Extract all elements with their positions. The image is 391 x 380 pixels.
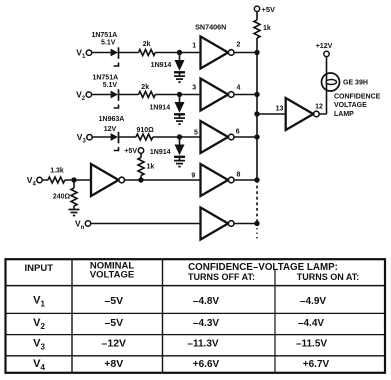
svg-text:SN7406N: SN7406N [195, 23, 226, 32]
svg-text:V1: V1 [76, 48, 86, 60]
svg-text:GE 39H: GE 39H [343, 80, 368, 87]
svg-text:V3: V3 [33, 338, 45, 352]
svg-text:–12V: –12V [102, 338, 127, 350]
svg-text:Vn: Vn [75, 219, 85, 231]
svg-text:VOLTAGE: VOLTAGE [334, 102, 367, 109]
svg-text:240Ω: 240Ω [53, 193, 71, 200]
svg-text:+5V: +5V [124, 148, 137, 155]
svg-text:–5V: –5V [104, 317, 123, 329]
svg-text:–11.3V: –11.3V [187, 339, 218, 350]
svg-text:1k: 1k [263, 25, 271, 32]
svg-text:1.3k: 1.3k [50, 168, 64, 175]
svg-text:V4: V4 [27, 175, 37, 187]
svg-text:5: 5 [194, 129, 198, 136]
svg-text:V2: V2 [33, 317, 45, 331]
svg-text:–5V: –5V [104, 295, 123, 307]
svg-text:V4: V4 [33, 358, 45, 372]
svg-text:1N914: 1N914 [151, 62, 172, 69]
svg-text:3: 3 [192, 84, 196, 91]
svg-text:+12V: +12V [316, 43, 333, 50]
svg-text:9: 9 [191, 173, 195, 180]
svg-text:13: 13 [276, 106, 284, 113]
svg-text:+6.7V: +6.7V [303, 359, 330, 370]
svg-text:4: 4 [236, 84, 240, 91]
svg-text:V1: V1 [33, 295, 45, 309]
svg-text:TURNS OFF AT:: TURNS OFF AT: [188, 272, 255, 282]
svg-text:910Ω: 910Ω [136, 127, 154, 134]
svg-text:+6.6V: +6.6V [193, 359, 220, 370]
svg-text:1N751A: 1N751A [91, 32, 117, 39]
svg-text:1k: 1k [147, 163, 155, 170]
svg-text:2k: 2k [143, 41, 151, 48]
svg-text:CONFIDENCE: CONFIDENCE [334, 93, 381, 100]
svg-text:VOLTAGE: VOLTAGE [90, 270, 135, 281]
svg-text:+8V: +8V [104, 358, 123, 370]
svg-text:–4.4V: –4.4V [298, 318, 324, 329]
svg-text:1N963A: 1N963A [99, 116, 125, 123]
svg-text:1N914: 1N914 [149, 104, 170, 111]
svg-text:V2: V2 [76, 90, 86, 102]
svg-text:1N914: 1N914 [150, 149, 171, 156]
svg-text:2: 2 [236, 42, 240, 49]
svg-text:–4.3V: –4.3V [193, 318, 219, 329]
svg-text:TURNS ON AT:: TURNS ON AT: [297, 272, 360, 282]
svg-text:INPUT: INPUT [25, 263, 54, 274]
svg-text:–11.5V: –11.5V [296, 339, 327, 350]
svg-text:6: 6 [236, 128, 240, 135]
svg-text:8: 8 [236, 172, 240, 179]
svg-text:–4.8V: –4.8V [193, 296, 219, 307]
svg-text:1: 1 [192, 42, 196, 49]
svg-text:2k: 2k [141, 84, 149, 91]
svg-text:LAMP: LAMP [334, 111, 354, 118]
svg-text:12V: 12V [104, 126, 117, 133]
svg-text:1N751A: 1N751A [92, 75, 118, 82]
svg-text:+5V: +5V [262, 5, 276, 14]
svg-text:5.1V: 5.1V [103, 82, 118, 89]
svg-text:5.1V: 5.1V [101, 40, 116, 47]
svg-text:–4.9V: –4.9V [300, 296, 326, 307]
svg-text:12: 12 [315, 103, 323, 110]
svg-text:V3: V3 [77, 132, 87, 144]
